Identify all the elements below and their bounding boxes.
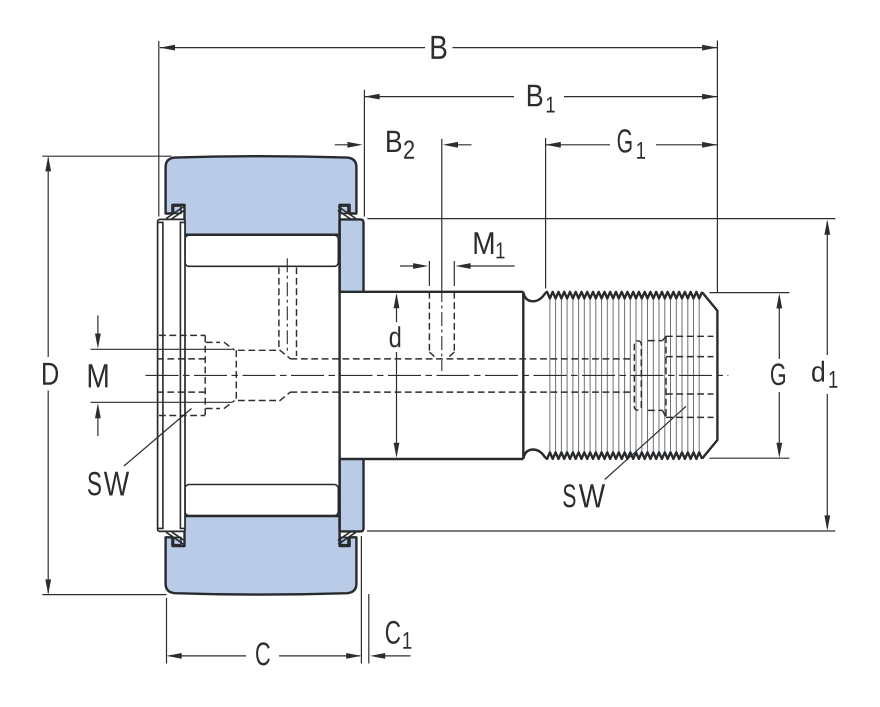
dim M arrows — [97, 315, 99, 436]
left socket chamfer lines — [206, 342, 235, 408]
duct cone step — [280, 350, 291, 401]
dim d1 arrows — [824, 220, 830, 531]
seal insert bottom-left — [174, 537, 181, 544]
right flange washer top — [340, 219, 364, 291]
seal lip lines bottom-right — [338, 532, 356, 545]
raceway lube hole axis — [286, 258, 288, 352]
left flange washer outline — [158, 219, 185, 531]
right socket mouth vertical — [665, 336, 667, 417]
dim B extension left — [158, 41, 160, 217]
thread end face — [716, 310, 718, 441]
label D — [43, 363, 58, 385]
outer ring bottom section — [166, 516, 357, 595]
shank lube hole walls — [429, 292, 454, 359]
thread minor verticals — [550, 299, 699, 453]
dim B arrows — [160, 45, 718, 51]
thread relief groove face — [522, 292, 524, 458]
right flange washer bottom — [340, 459, 364, 531]
dim G arrows — [776, 293, 782, 458]
dim G extensions — [710, 293, 790, 459]
needle rollers bottom — [185, 485, 338, 516]
dim B1 arrows — [364, 94, 717, 100]
dim M1 left arrow — [400, 265, 418, 267]
dim d arrows — [394, 293, 400, 458]
label G — [771, 363, 785, 385]
thread crest zigzag bottom — [545, 452, 702, 459]
label G1 — [618, 129, 645, 159]
label C — [256, 642, 270, 665]
dim C1 arrow — [380, 655, 411, 657]
left flange washer inner lines — [158, 222, 185, 530]
label SW right — [563, 484, 605, 507]
stud shank bottom edge — [364, 458, 524, 460]
dim C arrows — [167, 653, 362, 659]
label B — [432, 36, 447, 59]
seal lip lines top-left — [166, 207, 184, 220]
dim d1 line — [826, 222, 828, 528]
label M — [89, 364, 108, 387]
dim C line — [169, 655, 360, 657]
seal insert top-right — [341, 206, 348, 213]
drill cone capsule — [634, 341, 641, 410]
cone transition lines — [648, 336, 666, 417]
dim B line — [160, 47, 718, 49]
label C1 — [386, 621, 411, 649]
wide duct — [238, 350, 279, 400]
label B1 — [528, 85, 555, 113]
label d1 — [812, 361, 837, 388]
dim d line — [396, 295, 398, 455]
thread relief groove top scallop — [523, 292, 545, 302]
dim D line — [47, 158, 49, 594]
dim d1 extensions — [367, 219, 835, 531]
thread relief groove bottom scallop — [523, 450, 545, 460]
thread end chamfer top — [702, 292, 717, 311]
SW leader left — [124, 409, 192, 467]
dim B1 line — [364, 96, 717, 98]
label SW left — [88, 472, 129, 496]
raceway lube hole walls — [279, 268, 297, 357]
outer ring top section — [166, 156, 357, 234]
dim G1 extension — [545, 138, 547, 289]
label d — [390, 326, 401, 347]
thread crest zigzag top — [545, 292, 702, 299]
needle rollers top — [185, 235, 338, 266]
dim G line — [778, 296, 780, 455]
dim C1 extension — [368, 594, 370, 664]
dim M1 right arrow — [466, 265, 515, 267]
left socket inner hex lines — [157, 359, 205, 392]
seal insert top-left — [174, 206, 181, 213]
narrow duct — [291, 359, 631, 392]
dim D extension bottom — [42, 594, 166, 596]
dim B1 extension — [363, 90, 365, 217]
dim C extensions — [167, 536, 362, 664]
right socket outer lines — [666, 336, 714, 417]
dim G1 line — [546, 144, 718, 146]
seal insert bottom-right — [341, 537, 348, 544]
stud step face line — [338, 219, 340, 531]
seal lip lines bottom-left — [166, 532, 184, 545]
left socket end vertical — [235, 350, 237, 400]
dim B2 axis extension — [441, 139, 443, 288]
left socket mouth vertical — [204, 335, 206, 415]
left socket flat lines (M extension) — [91, 349, 233, 402]
left socket corner lines — [159, 335, 205, 415]
right socket inner lines — [666, 357, 714, 394]
thread end chamfer bottom — [702, 440, 717, 459]
stud shank top edge — [364, 291, 524, 293]
dim D extension top — [42, 155, 171, 157]
dim M1 extensions — [429, 261, 454, 286]
dim B2 right arrow — [453, 144, 472, 146]
label B2 — [387, 131, 414, 159]
centerline — [146, 374, 729, 376]
dim G1 arrows — [546, 142, 718, 148]
dim B2 left arrow — [335, 144, 352, 146]
dim D arrows — [45, 156, 51, 594]
dim B extension right — [716, 41, 718, 293]
SW leader right — [605, 406, 686, 479]
seal lip lines top-right — [338, 207, 356, 220]
shank hole axis — [441, 288, 443, 371]
label M1 — [475, 232, 505, 258]
